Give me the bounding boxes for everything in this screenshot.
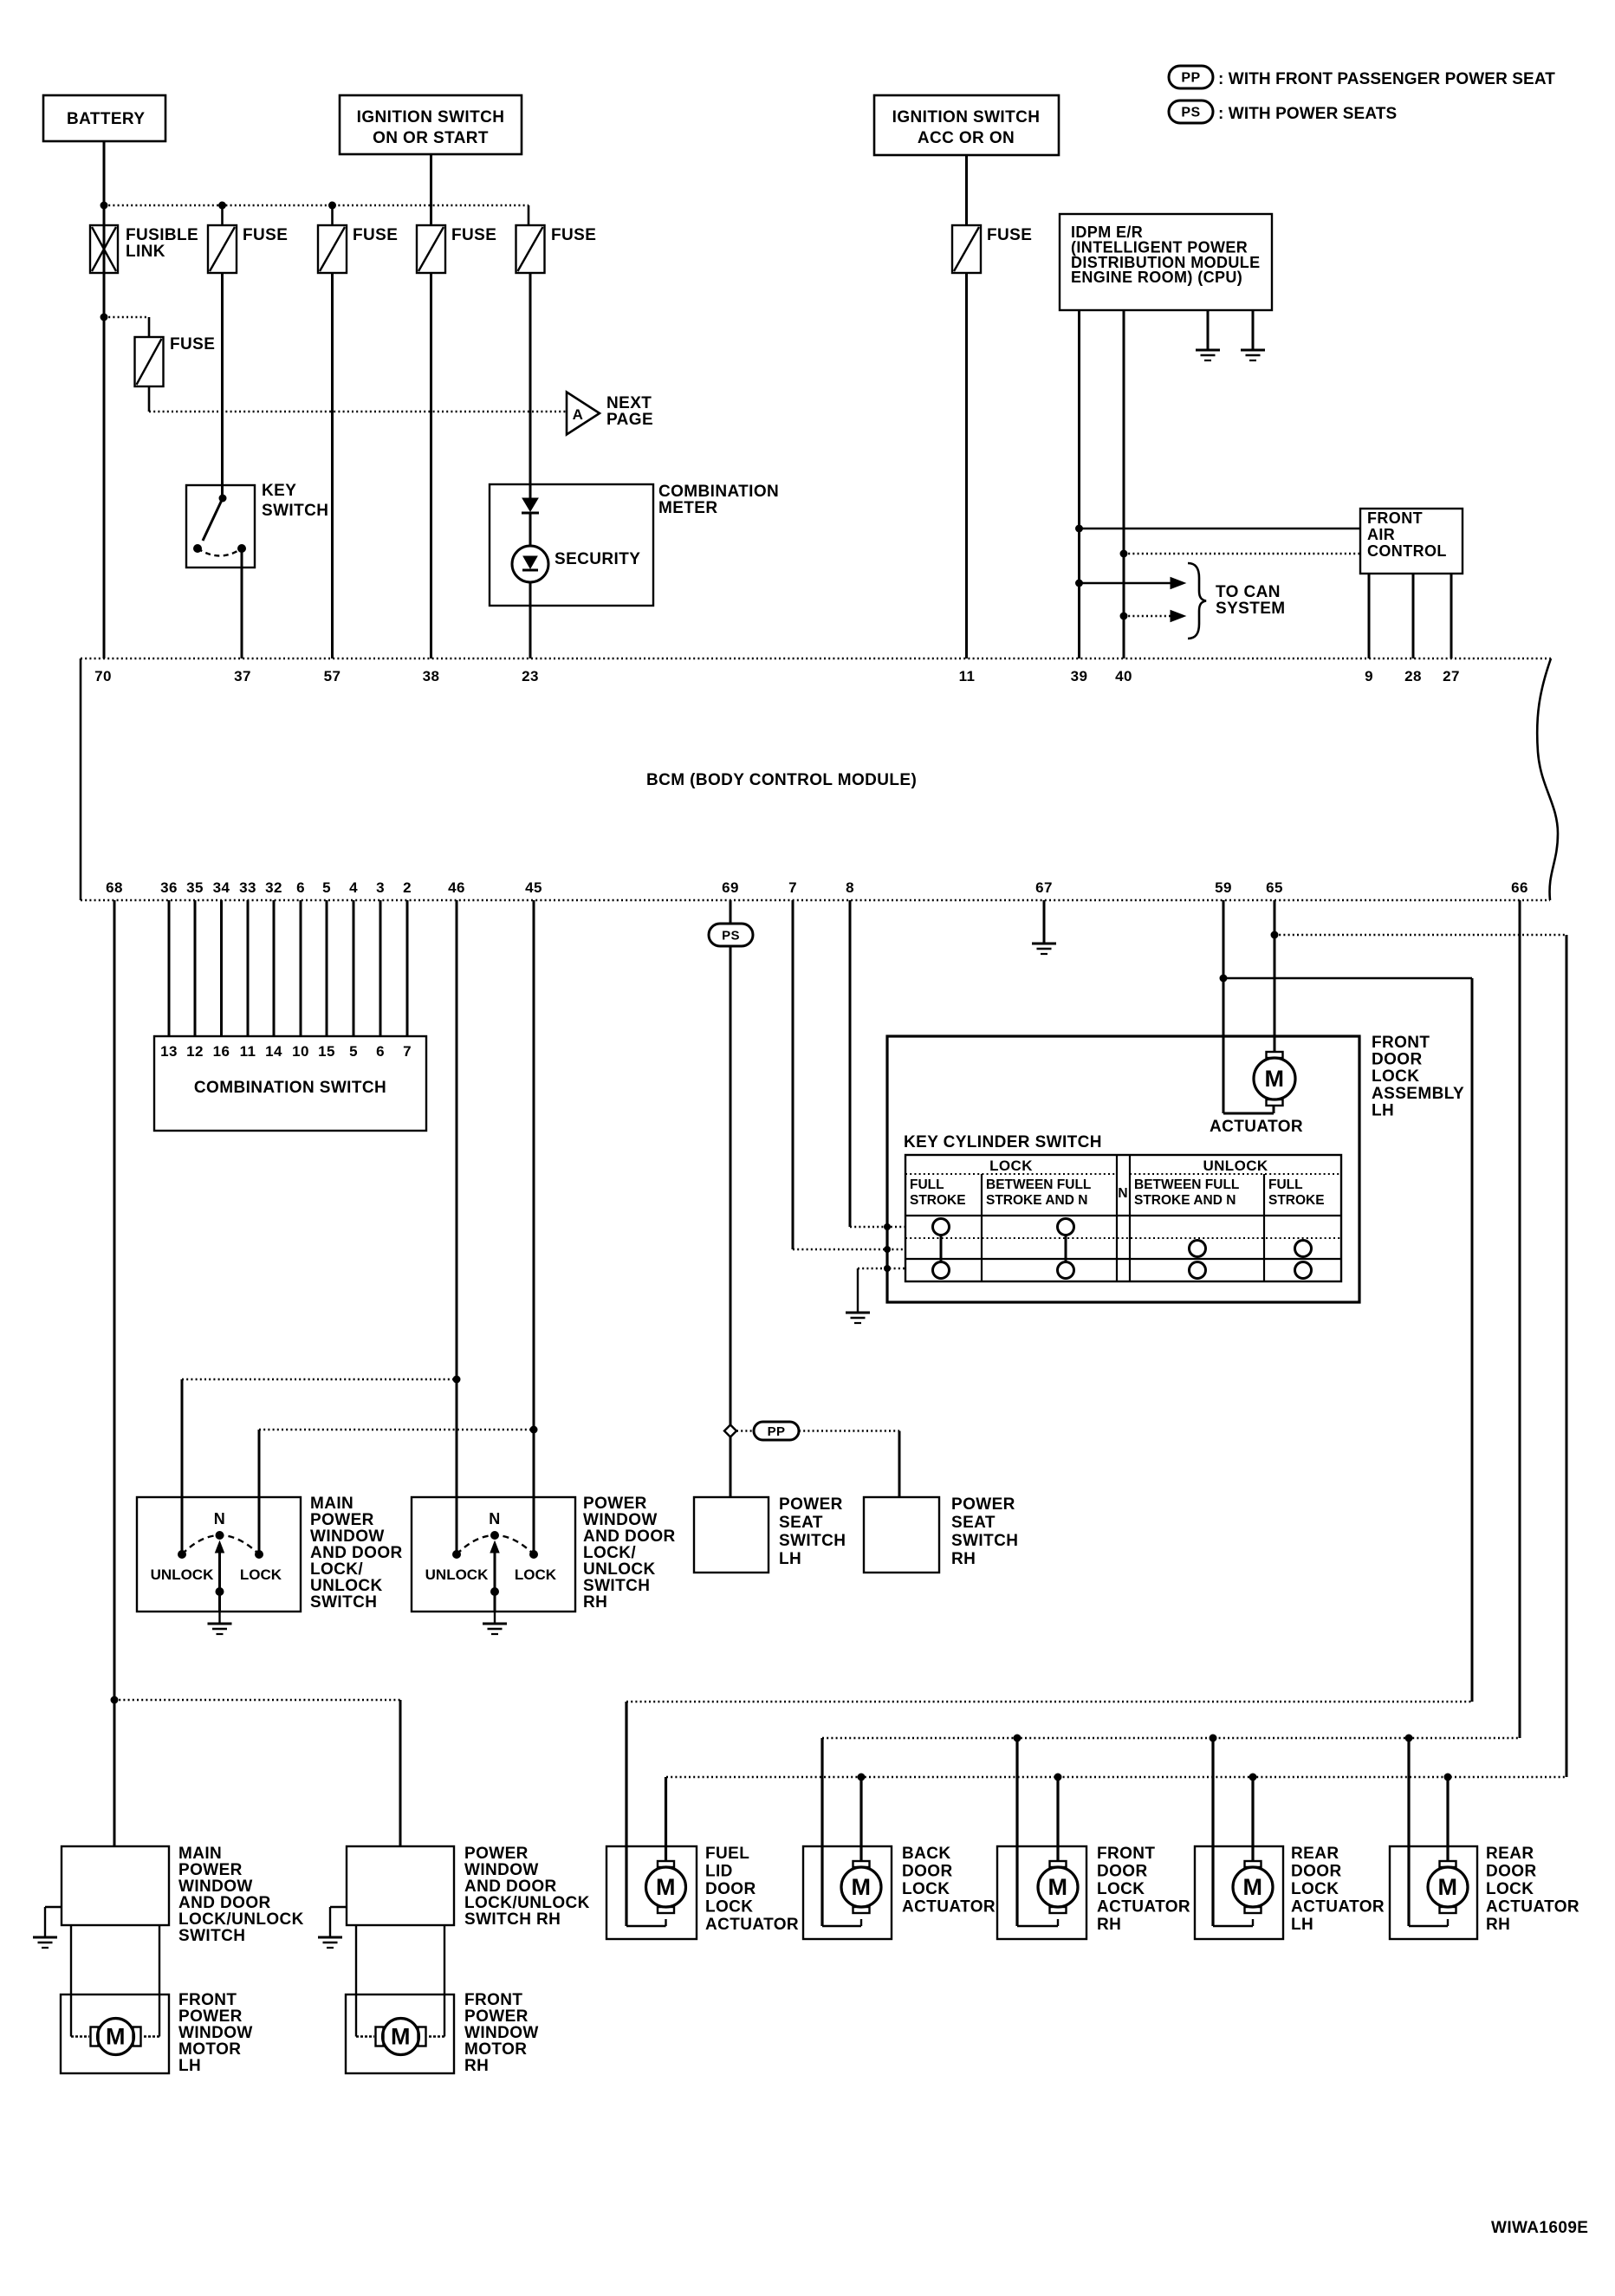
svg-text:N: N bbox=[1118, 1186, 1127, 1201]
wire pin 59 to actuator bbox=[1223, 1112, 1274, 1115]
wires BCM to combination switch bbox=[168, 900, 171, 1036]
wire fuse F2 to key switch bbox=[221, 273, 224, 498]
svg-text:A: A bbox=[573, 406, 584, 423]
svg-text:PAGE: PAGE bbox=[606, 411, 653, 429]
svg-text:M: M bbox=[1243, 1874, 1263, 1900]
BCM body control module box bbox=[81, 658, 1551, 660]
svg-text:66: 66 bbox=[1511, 879, 1528, 896]
svg-text:M: M bbox=[656, 1874, 676, 1900]
svg-text:WINDOW: WINDOW bbox=[583, 1511, 658, 1529]
svg-text:13: 13 bbox=[160, 1043, 178, 1060]
svg-text:ENGINE ROOM) (CPU): ENGINE ROOM) (CPU) bbox=[1071, 269, 1242, 286]
svg-text:14: 14 bbox=[265, 1043, 282, 1060]
svg-text:POWER: POWER bbox=[310, 1511, 374, 1529]
node pin40 CAN tap bbox=[1120, 550, 1128, 558]
svg-text:LOCK: LOCK bbox=[1291, 1880, 1339, 1898]
rear door lock actuator RH bbox=[1390, 1846, 1477, 1939]
svg-text:AND DOOR: AND DOOR bbox=[310, 1544, 403, 1562]
wire battery bus bbox=[104, 204, 529, 207]
svg-text:LH: LH bbox=[1372, 1101, 1394, 1119]
svg-text:IGNITION SWITCH: IGNITION SWITCH bbox=[357, 108, 505, 126]
node bus2 rear RH tap bbox=[1405, 1735, 1413, 1742]
wire IPDM to pin 39 bbox=[1078, 310, 1080, 658]
node wire entry row3 bbox=[884, 1265, 891, 1272]
svg-text:FUSE: FUSE bbox=[353, 226, 398, 244]
contact link col1 bbox=[940, 1235, 943, 1262]
node pin40 arrow tap bbox=[1120, 613, 1128, 620]
svg-text:LOCK: LOCK bbox=[989, 1158, 1033, 1174]
svg-text:ACTUATOR: ACTUATOR bbox=[1097, 1898, 1190, 1917]
svg-text:UNLOCK: UNLOCK bbox=[151, 1566, 214, 1583]
svg-text:MOTOR: MOTOR bbox=[178, 2040, 241, 2059]
fuse F2 bbox=[208, 225, 237, 273]
svg-text:LOCK/: LOCK/ bbox=[583, 1544, 636, 1562]
fuse F6 bbox=[135, 337, 164, 386]
wire fuse F5 to combination meter bbox=[529, 273, 532, 498]
wire IPDM ground 1 bbox=[1207, 310, 1210, 350]
svg-text:BACK: BACK bbox=[902, 1845, 951, 1863]
svg-text:KEY: KEY bbox=[262, 482, 296, 500]
svg-text:LINK: LINK bbox=[126, 243, 165, 261]
security indicator lamp bbox=[512, 546, 548, 582]
svg-text:70: 70 bbox=[94, 668, 112, 684]
ignition switch ACC or ON source bbox=[874, 95, 1059, 155]
svg-text:9: 9 bbox=[1365, 668, 1373, 684]
svg-text:37: 37 bbox=[234, 668, 251, 684]
svg-text:ON OR START: ON OR START bbox=[373, 129, 489, 147]
node bus3 back door tap bbox=[858, 1774, 866, 1781]
wire IPDM ground 2 bbox=[1252, 310, 1255, 350]
svg-text:AND DOOR: AND DOOR bbox=[583, 1527, 676, 1546]
svg-text:ACC OR ON: ACC OR ON bbox=[918, 129, 1015, 147]
svg-text:CONTROL: CONTROL bbox=[1367, 542, 1447, 560]
svg-text:SWITCH: SWITCH bbox=[310, 1593, 377, 1612]
main power window and door lock/unlock switch (bottom) bbox=[62, 1846, 169, 1925]
svg-text:POWER: POWER bbox=[583, 1495, 647, 1513]
svg-text:REAR: REAR bbox=[1291, 1845, 1339, 1863]
svg-text:SYSTEM: SYSTEM bbox=[1216, 600, 1286, 618]
door lock actuator LH motor bbox=[1267, 1052, 1283, 1058]
svg-text:WINDOW: WINDOW bbox=[464, 1861, 539, 1879]
svg-text:UNLOCK: UNLOCK bbox=[310, 1577, 383, 1595]
wire security lamp to pin 23 bbox=[529, 582, 532, 658]
back door lock actuator bbox=[803, 1846, 892, 1939]
svg-text:FRONT: FRONT bbox=[1372, 1034, 1430, 1052]
wire pin 65 to right riser bbox=[1274, 934, 1566, 937]
wire pin 8 to key cylinder row1 bbox=[850, 1226, 905, 1229]
fuse F3 bbox=[318, 225, 347, 273]
wire pin 65 down bbox=[1274, 900, 1276, 1052]
wire pin40 to front air control bbox=[1124, 553, 1360, 555]
svg-text:SWITCH: SWITCH bbox=[262, 502, 328, 520]
svg-text:DOOR: DOOR bbox=[1372, 1051, 1423, 1069]
connector PS on pin 69 wire bbox=[709, 924, 753, 946]
svg-text:39: 39 bbox=[1071, 668, 1088, 684]
contact circles row3 bbox=[933, 1262, 950, 1279]
wire lock bus 1 bbox=[626, 1701, 1472, 1703]
svg-text:NEXT: NEXT bbox=[606, 394, 652, 412]
svg-text:FULL: FULL bbox=[910, 1177, 944, 1192]
node battery bus junction bbox=[101, 202, 108, 210]
svg-text:METER: METER bbox=[658, 499, 718, 517]
svg-text:ACTUATOR: ACTUATOR bbox=[705, 1916, 799, 1934]
contact circles row1 bbox=[933, 1219, 950, 1236]
wire pin 66 down bbox=[1519, 900, 1521, 1738]
svg-text:7: 7 bbox=[403, 1043, 412, 1060]
svg-text:5: 5 bbox=[322, 879, 331, 896]
connector diamond node bbox=[724, 1425, 736, 1437]
svg-text:BETWEEN FULL: BETWEEN FULL bbox=[1134, 1177, 1239, 1192]
wire pin 45 down bbox=[533, 900, 535, 1554]
node bus2 rear LH tap bbox=[1210, 1735, 1217, 1742]
wire front air control pin 27 bbox=[1450, 574, 1453, 658]
node pin 59 branch bbox=[1220, 975, 1228, 983]
front door lock actuator RH bbox=[997, 1846, 1086, 1939]
svg-text:FRONT: FRONT bbox=[1097, 1845, 1155, 1863]
wire pin 59 down bbox=[1223, 900, 1225, 1113]
svg-text:40: 40 bbox=[1115, 668, 1132, 684]
svg-text:FUSIBLE: FUSIBLE bbox=[126, 226, 198, 244]
svg-text:STROKE: STROKE bbox=[910, 1193, 966, 1208]
wire battery to pin 70 bbox=[103, 141, 106, 658]
svg-text:35: 35 bbox=[186, 879, 204, 896]
node bus2 front door RH tap bbox=[1014, 1735, 1022, 1742]
combination switch box bbox=[154, 1036, 426, 1131]
svg-text:69: 69 bbox=[722, 879, 739, 896]
wire CAN-H arrow bbox=[1080, 582, 1171, 585]
svg-text:SWITCH RH: SWITCH RH bbox=[464, 1910, 561, 1929]
wire fuse F6 to next-page A bbox=[148, 386, 151, 412]
wire ignition ACC to fuse F7 bbox=[965, 155, 968, 225]
svg-text:WINDOW: WINDOW bbox=[178, 1878, 253, 1896]
svg-text:WIWA1609E: WIWA1609E bbox=[1491, 2219, 1588, 2237]
svg-text:10: 10 bbox=[292, 1043, 309, 1060]
svg-text:FRONT: FRONT bbox=[1367, 509, 1423, 527]
svg-text:67: 67 bbox=[1035, 879, 1053, 896]
svg-text:LOCK: LOCK bbox=[1097, 1880, 1145, 1898]
battery B+ bbox=[43, 95, 165, 141]
contact circles row2 bbox=[1190, 1241, 1206, 1257]
svg-text:POWER: POWER bbox=[464, 1845, 529, 1863]
svg-text:6: 6 bbox=[296, 879, 305, 896]
svg-text:FUEL: FUEL bbox=[705, 1845, 749, 1863]
svg-text:LH: LH bbox=[1291, 1916, 1313, 1934]
svg-text:11: 11 bbox=[240, 1043, 256, 1060]
svg-text:RH: RH bbox=[951, 1550, 976, 1568]
wire pin 7 down bbox=[792, 900, 795, 1249]
wire pin 46 down bbox=[456, 900, 458, 1554]
wire lock bus 2 bbox=[822, 1737, 1520, 1740]
svg-text:ACTUATOR: ACTUATOR bbox=[902, 1898, 996, 1917]
svg-text:FRONT: FRONT bbox=[178, 1991, 237, 2009]
svg-text:IGNITION SWITCH: IGNITION SWITCH bbox=[892, 108, 1041, 126]
ground IPDM 1 bbox=[1196, 349, 1220, 352]
svg-text:M: M bbox=[852, 1874, 872, 1900]
svg-text:DOOR: DOOR bbox=[1097, 1863, 1148, 1881]
svg-text:FUSE: FUSE bbox=[551, 226, 596, 244]
power seat switch RH box bbox=[864, 1497, 939, 1573]
node pin 65 branch bbox=[1271, 931, 1279, 939]
svg-text:POWER: POWER bbox=[178, 2007, 243, 2026]
svg-text:BATTERY: BATTERY bbox=[67, 110, 145, 128]
svg-text:DOOR: DOOR bbox=[1486, 1863, 1537, 1881]
svg-text:BETWEEN FULL: BETWEEN FULL bbox=[986, 1177, 1091, 1192]
svg-text:N: N bbox=[489, 1510, 500, 1527]
diode D1 bbox=[522, 498, 538, 511]
node fuse F2 tap bbox=[218, 202, 226, 210]
node fuse F6 tap bbox=[101, 314, 108, 321]
svg-text:SWITCH: SWITCH bbox=[779, 1532, 846, 1550]
wire fuse F3 to pin 57 bbox=[331, 273, 334, 658]
ground IPDM 2 bbox=[1241, 349, 1265, 352]
main power window and door lock/unlock switch (mid) bbox=[137, 1497, 301, 1612]
svg-text:LH: LH bbox=[178, 2057, 201, 2075]
svg-text:COMBINATION: COMBINATION bbox=[658, 483, 779, 501]
svg-text:11: 11 bbox=[959, 668, 976, 684]
node pin 68 branch bbox=[111, 1696, 119, 1704]
svg-text:PS: PS bbox=[1181, 106, 1200, 120]
svg-text:ACTUATOR: ACTUATOR bbox=[1210, 1118, 1303, 1136]
svg-text:POWER: POWER bbox=[464, 2007, 529, 2026]
wire branch to RH window switch bbox=[114, 1699, 400, 1702]
svg-text:M: M bbox=[1438, 1874, 1458, 1900]
wire pin 45 to main switch lock bbox=[259, 1429, 534, 1431]
svg-text:FUSE: FUSE bbox=[170, 335, 215, 353]
ground BCM pin 67 bbox=[1032, 943, 1056, 945]
fuel lid door lock actuator bbox=[606, 1846, 697, 1939]
wire fuse F4 to pin 38 bbox=[430, 273, 432, 658]
key switch S1 bbox=[186, 485, 255, 568]
svg-text:FULL: FULL bbox=[1268, 1177, 1303, 1192]
svg-text:M: M bbox=[106, 2024, 126, 2050]
svg-text:N: N bbox=[214, 1510, 225, 1527]
svg-text:33: 33 bbox=[239, 879, 256, 896]
svg-text:5: 5 bbox=[349, 1043, 358, 1060]
svg-text:M: M bbox=[1048, 1874, 1068, 1900]
svg-text:ASSEMBLY: ASSEMBLY bbox=[1372, 1085, 1464, 1103]
svg-text:SWITCH: SWITCH bbox=[951, 1532, 1018, 1550]
svg-text:65: 65 bbox=[1266, 879, 1283, 896]
wire fuse F7 to pin 11 bbox=[965, 274, 968, 658]
svg-text:ACTUATOR: ACTUATOR bbox=[1486, 1898, 1579, 1917]
svg-text:LOCK: LOCK bbox=[705, 1898, 753, 1917]
svg-text:RH: RH bbox=[1097, 1916, 1121, 1934]
svg-text:38: 38 bbox=[423, 668, 440, 684]
svg-text:SEAT: SEAT bbox=[779, 1514, 823, 1532]
svg-text:POWER: POWER bbox=[178, 1861, 243, 1879]
svg-text:LOCK: LOCK bbox=[1372, 1067, 1419, 1086]
svg-text:SWITCH: SWITCH bbox=[178, 1927, 245, 1945]
svg-text:LOCK/UNLOCK: LOCK/UNLOCK bbox=[464, 1894, 590, 1912]
svg-text:BCM (BODY CONTROL MODULE): BCM (BODY CONTROL MODULE) bbox=[646, 771, 917, 789]
wire pin 67 down bbox=[1043, 900, 1046, 944]
svg-text:FRONT: FRONT bbox=[464, 1991, 522, 2009]
svg-text:PP: PP bbox=[768, 1424, 786, 1439]
svg-text:PS: PS bbox=[722, 929, 740, 944]
wire pin 46 to main switch unlock bbox=[182, 1378, 457, 1381]
node wire entry row1 bbox=[884, 1223, 891, 1230]
IPDM E/R module bbox=[1060, 214, 1272, 310]
node fuse F3 tap bbox=[328, 202, 336, 210]
wire pin 8 down bbox=[849, 900, 852, 1227]
svg-text:REAR: REAR bbox=[1486, 1845, 1534, 1863]
wire diamond to power seat switch LH bbox=[730, 1437, 732, 1497]
svg-text:M: M bbox=[1265, 1066, 1285, 1092]
svg-text:M: M bbox=[391, 2024, 411, 2050]
svg-text:: WITH FRONT PASSENGER POWER S: : WITH FRONT PASSENGER POWER SEAT bbox=[1218, 70, 1555, 88]
svg-text:FUSE: FUSE bbox=[987, 226, 1032, 244]
svg-text:LOCK: LOCK bbox=[240, 1566, 282, 1583]
contact link col2 bbox=[1065, 1235, 1067, 1262]
svg-text:2: 2 bbox=[403, 879, 412, 896]
svg-text:POWER: POWER bbox=[779, 1495, 843, 1514]
legend PS connector symbol bbox=[1169, 101, 1213, 123]
wire PP to power seat switch RH bbox=[799, 1430, 899, 1432]
front air control unit bbox=[1360, 509, 1463, 574]
svg-text:RH: RH bbox=[1486, 1916, 1510, 1934]
node pin 45 branch bbox=[530, 1426, 538, 1434]
wire key cylinder row3 to ground bbox=[858, 1268, 905, 1270]
combination meter box bbox=[490, 484, 653, 606]
svg-text:MAIN: MAIN bbox=[178, 1845, 222, 1863]
connector PP option bbox=[754, 1422, 799, 1440]
node wire entry row2 bbox=[884, 1246, 891, 1253]
wire lock bus 3 bbox=[666, 1776, 1566, 1779]
wire pin 68 down bbox=[114, 900, 116, 1846]
wire front air control pin 28 bbox=[1412, 574, 1415, 658]
svg-text:DOOR: DOOR bbox=[1291, 1863, 1342, 1881]
svg-text:DOOR: DOOR bbox=[902, 1863, 953, 1881]
svg-text:16: 16 bbox=[213, 1043, 230, 1060]
wire ignition to fuse F4 bbox=[430, 154, 432, 225]
svg-text:SWITCH: SWITCH bbox=[583, 1577, 650, 1595]
wire pin 69 down bbox=[730, 900, 732, 1426]
wire key switch to pin 37 bbox=[241, 548, 243, 658]
svg-text:45: 45 bbox=[525, 879, 542, 896]
node bus3 rear LH tap bbox=[1249, 1774, 1257, 1781]
svg-text:32: 32 bbox=[265, 879, 282, 896]
svg-text:57: 57 bbox=[324, 668, 341, 684]
legend PP connector symbol bbox=[1169, 66, 1213, 88]
svg-text:MAIN: MAIN bbox=[310, 1495, 353, 1513]
svg-text:KEY CYLINDER SWITCH: KEY CYLINDER SWITCH bbox=[904, 1133, 1102, 1151]
svg-text:WINDOW: WINDOW bbox=[464, 2024, 539, 2042]
svg-text:LH: LH bbox=[779, 1550, 801, 1568]
svg-text:MOTOR: MOTOR bbox=[464, 2040, 527, 2059]
svg-text:AND DOOR: AND DOOR bbox=[464, 1878, 557, 1896]
node pin 46 branch bbox=[453, 1376, 461, 1384]
svg-text:4: 4 bbox=[349, 879, 358, 896]
svg-text:FUSE: FUSE bbox=[243, 226, 288, 244]
svg-text:SEAT: SEAT bbox=[951, 1514, 996, 1532]
svg-text:3: 3 bbox=[376, 879, 385, 896]
node pin39 arrow tap bbox=[1075, 580, 1083, 587]
svg-text:SECURITY: SECURITY bbox=[555, 550, 640, 568]
key cylinder switch table bbox=[905, 1155, 1341, 1281]
svg-text:RH: RH bbox=[583, 1593, 607, 1612]
svg-text:27: 27 bbox=[1443, 668, 1460, 684]
node bus3 front RH tap bbox=[1054, 1774, 1062, 1781]
node pin39 CAN tap bbox=[1075, 525, 1083, 533]
svg-text:LOCK/: LOCK/ bbox=[310, 1560, 363, 1579]
power seat switch LH box bbox=[694, 1497, 769, 1573]
svg-text:LOCK: LOCK bbox=[1486, 1880, 1534, 1898]
wire to fuse F3 bbox=[331, 205, 334, 225]
svg-text:WINDOW: WINDOW bbox=[178, 2024, 253, 2042]
svg-text:36: 36 bbox=[160, 879, 178, 896]
wire pin 59 to right riser bbox=[1223, 977, 1472, 980]
wire IPDM to pin 40 bbox=[1123, 310, 1125, 658]
svg-text:PP: PP bbox=[1181, 71, 1200, 86]
svg-text:RH: RH bbox=[464, 2057, 489, 2075]
svg-text:STROKE AND N: STROKE AND N bbox=[1134, 1193, 1236, 1208]
node bus3 rear RH tap bbox=[1444, 1774, 1452, 1781]
svg-text:UNLOCK: UNLOCK bbox=[583, 1560, 656, 1579]
svg-text:ACTUATOR: ACTUATOR bbox=[1291, 1898, 1385, 1917]
svg-text:TO CAN: TO CAN bbox=[1216, 583, 1281, 601]
fuse F7 bbox=[952, 225, 981, 273]
svg-text:7: 7 bbox=[788, 879, 797, 896]
fuse F5 bbox=[516, 225, 545, 273]
power window and door lock/unlock switch RH (bottom) bbox=[347, 1846, 454, 1925]
svg-text:8: 8 bbox=[846, 879, 854, 896]
svg-text:28: 28 bbox=[1404, 668, 1422, 684]
wire diode to security lamp bbox=[529, 513, 532, 546]
svg-text:WINDOW: WINDOW bbox=[310, 1527, 385, 1546]
svg-text:LOCK: LOCK bbox=[902, 1880, 950, 1898]
svg-text:23: 23 bbox=[522, 668, 539, 684]
svg-text:DOOR: DOOR bbox=[705, 1880, 756, 1898]
svg-text:LID: LID bbox=[705, 1863, 733, 1881]
svg-text:LOCK/UNLOCK: LOCK/UNLOCK bbox=[178, 1910, 304, 1929]
wire front air control pin 9 bbox=[1368, 574, 1371, 658]
front door lock assembly LH box bbox=[887, 1036, 1359, 1302]
svg-text:59: 59 bbox=[1215, 879, 1232, 896]
wire pin 7 to key cylinder row2 bbox=[793, 1249, 905, 1251]
ignition switch ON or START source bbox=[340, 95, 522, 154]
wire to fuse F2 bbox=[221, 205, 224, 225]
fuse F4 bbox=[417, 225, 445, 273]
svg-text:46: 46 bbox=[448, 879, 465, 896]
svg-text:15: 15 bbox=[318, 1043, 335, 1060]
svg-text:LOCK: LOCK bbox=[515, 1566, 557, 1583]
wire CAN-L arrow bbox=[1124, 615, 1171, 618]
svg-text:AIR: AIR bbox=[1367, 526, 1395, 543]
svg-text:6: 6 bbox=[376, 1043, 385, 1060]
ground key cylinder switch bbox=[846, 1312, 870, 1314]
svg-text:STROKE: STROKE bbox=[1268, 1193, 1325, 1208]
rear door lock actuator LH bbox=[1195, 1846, 1283, 1939]
brace to CAN system bbox=[1188, 563, 1206, 639]
svg-text:COMBINATION SWITCH: COMBINATION SWITCH bbox=[194, 1079, 386, 1097]
svg-text:UNLOCK: UNLOCK bbox=[425, 1566, 489, 1583]
svg-text:: WITH POWER SEATS: : WITH POWER SEATS bbox=[1218, 105, 1397, 123]
wire pin39 to front air control bbox=[1080, 528, 1361, 530]
svg-text:UNLOCK: UNLOCK bbox=[1203, 1158, 1268, 1174]
svg-text:12: 12 bbox=[186, 1043, 204, 1060]
power window and door lock/unlock switch RH (mid) bbox=[412, 1497, 575, 1612]
wire to fuse F6 bbox=[104, 316, 149, 319]
svg-text:POWER: POWER bbox=[951, 1495, 1015, 1514]
svg-text:STROKE AND N: STROKE AND N bbox=[986, 1193, 1087, 1208]
wire diamond to PP bbox=[736, 1430, 754, 1432]
svg-text:AND DOOR: AND DOOR bbox=[178, 1894, 271, 1912]
svg-text:68: 68 bbox=[106, 879, 123, 896]
svg-text:34: 34 bbox=[213, 879, 230, 896]
fusible link FL bbox=[90, 225, 118, 273]
off-page connector A next page bbox=[567, 392, 600, 435]
svg-text:FUSE: FUSE bbox=[451, 226, 496, 244]
